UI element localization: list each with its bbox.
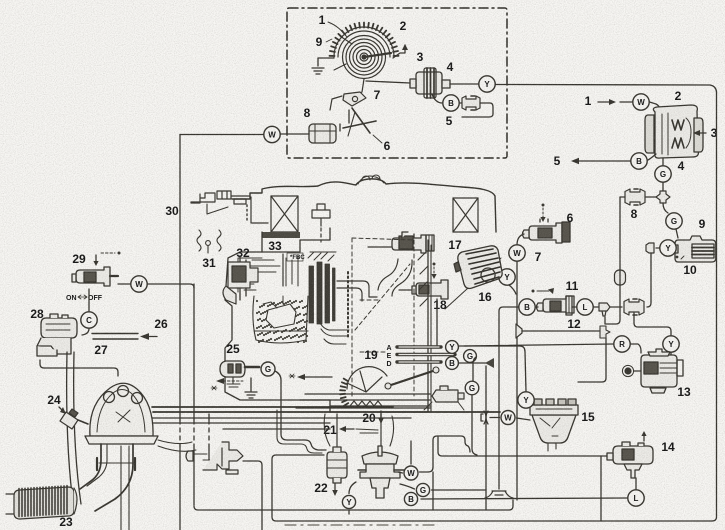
- idle compensator under air cleaner: [186, 442, 243, 474]
- linkage item 7 (inset): [330, 79, 366, 110]
- wire Y13 to item 13: [670, 353, 672, 356]
- vertical hose x209 dashed: [208, 420, 210, 446]
- vacuum valve item 25: [220, 361, 259, 387]
- wire linkage to item 4 (inset): [366, 81, 410, 83]
- riser to EGR: [380, 414, 382, 447]
- wire G port to choke opener G: [473, 357, 476, 381]
- engine top outline: [232, 179, 496, 232]
- intake flange bar: [262, 232, 300, 238]
- air cleaner dome: [85, 383, 158, 444]
- hose marker C (item 28): [81, 312, 97, 328]
- venturi top hatch: [308, 252, 336, 261]
- riser to item 22: [336, 414, 338, 446]
- vacuum valve item 10 (top right): [673, 236, 716, 262]
- vertical hose x194 lower: [193, 446, 195, 505]
- distributor item 15: [530, 399, 578, 451]
- wire W to main corner: [180, 134, 263, 136]
- throttle rod (bone): [388, 370, 436, 386]
- wire item11 right to L: [572, 306, 576, 308]
- wire cross12 bottom to Y13: [634, 313, 671, 335]
- wire item28 down to air cleaner inlet: [40, 360, 118, 376]
- wire tee to cross 12: [610, 306, 622, 308]
- air pump pipe down to intake: [67, 352, 81, 510]
- wire item29 to W: [118, 283, 130, 285]
- wire R line left: [464, 344, 614, 346]
- tee connector right of L: [594, 306, 599, 308]
- wire item17 left stub: [368, 246, 391, 248]
- wire port A to R line corner: [459, 345, 520, 347]
- valve cover bump: [358, 175, 384, 184]
- hose marker G (choke opener): [465, 381, 479, 395]
- carb internal passages: [246, 256, 298, 286]
- spacer nested curves: [318, 318, 349, 344]
- manifold hose band 3: [152, 417, 411, 419]
- fold artifact dash-dot: [285, 524, 438, 526]
- switch lever item 30: [207, 204, 228, 214]
- hose marker Y (item 15): [518, 392, 534, 408]
- air duct to carb: [158, 440, 196, 451]
- canister item 8 (inset): [309, 110, 349, 143]
- throttle rod 21: [356, 429, 378, 433]
- throttle lever gear item 19: [340, 367, 387, 406]
- wire Y22 to EGR stem: [349, 482, 356, 494]
- spring item 20: [350, 401, 382, 406]
- dashed mark left of item 11: [532, 290, 535, 293]
- dashed arrow left of 25: [223, 380, 243, 382]
- wire item18 down to R line: [436, 299, 438, 345]
- wire Y to right edge long hose: [496, 85, 717, 93]
- arrow item 20: [380, 411, 382, 419]
- hose marker G (item 25): [261, 362, 275, 376]
- wire W15 into distributor: [517, 418, 531, 420]
- duct pipes down: [121, 446, 129, 530]
- hose marker W (item 15): [501, 411, 515, 425]
- wire W22 zigzag right: [420, 436, 471, 472]
- wire gear-left to ground (inset): [318, 58, 334, 66]
- rods item 6 (inset): [343, 108, 376, 136]
- wire y456 to item 14: [438, 437, 607, 456]
- wire item4 to B (inset): [432, 94, 442, 103]
- solenoid valve item 11/12: [537, 296, 575, 315]
- hose marker G (top right item 4): [655, 166, 671, 182]
- mark near item 10: [676, 256, 679, 259]
- arrow 3 (top right): [698, 132, 706, 134]
- hose marker G (port E): [464, 350, 477, 363]
- ground below item 25: [250, 378, 252, 391]
- arrow into carb bottom: [305, 376, 332, 378]
- second bottom hose: [194, 500, 513, 510]
- tee stem down from y331 tee: [578, 338, 606, 382]
- inset dash-dot border: [287, 8, 507, 158]
- distributor advance item 16: [454, 246, 502, 289]
- wire L14 left to EGR B: [421, 498, 628, 499]
- arrow above item 14: [643, 434, 645, 441]
- distributor gear item 1 (inset): [330, 23, 399, 79]
- valve item 4 (inset): [410, 68, 450, 98]
- hose marker Y (item 16): [499, 269, 515, 285]
- drain symbol bottom of B11 line: [485, 491, 513, 498]
- hose marker B (EGR lower): [404, 492, 417, 505]
- EGR vacuum modulator item 14: [607, 442, 653, 478]
- leader from item 16: [445, 258, 501, 309]
- wire W7 down to bottom: [516, 262, 518, 501]
- main frame corner wire: [179, 135, 181, 421]
- wire W29 right to drop: [148, 284, 195, 288]
- choke housing details: [238, 258, 262, 292]
- hose marker B (inset item 5): [443, 95, 459, 111]
- wire arrow to W (top right): [620, 101, 632, 103]
- capsule fitting on x620 line: [615, 270, 626, 285]
- manifold hose band 2: [153, 411, 500, 413]
- manifold hose band 1: [152, 406, 393, 408]
- hose marker L (item 12): [577, 299, 593, 315]
- corrugated hose item 23: [6, 486, 77, 519]
- port dot item 13: [634, 370, 641, 372]
- wire W22 top: [410, 441, 412, 464]
- arrow 1 (top right): [598, 101, 611, 103]
- wire item8 to W (inset): [281, 133, 309, 135]
- wire item14 bottom to L: [635, 478, 637, 489]
- vertical hose x194 dashed: [193, 420, 195, 446]
- vacuum valve item 18: [412, 280, 448, 299]
- sensor item 24: [60, 409, 88, 429]
- hose marker W (inset item 8): [264, 126, 280, 142]
- flange connector on x486 line: [481, 411, 488, 424]
- dashed mark above item 18: [433, 263, 436, 266]
- wire item11 left nozzle to B: [536, 306, 539, 308]
- wire W15 left stub to flange: [490, 417, 500, 419]
- cross connector (near 12): [624, 299, 644, 315]
- hose marker Y (item 13): [663, 336, 679, 352]
- dashed mark above item 6: [542, 204, 545, 207]
- hose marker G (EGR): [416, 483, 429, 496]
- frame wire lower: [179, 446, 181, 530]
- wedge fitting on x517 line: [516, 324, 522, 338]
- arrow item 22: [334, 484, 336, 491]
- vertical hose x194: [193, 284, 195, 420]
- fitting on engine top: [312, 204, 330, 242]
- relay item 30: [191, 191, 268, 223]
- wire W22 drop to bottom: [432, 472, 434, 510]
- wire compensator to x262 drop: [243, 461, 262, 530]
- ground (inset): [312, 68, 324, 74]
- thermo wax item 31 squiggles: [197, 230, 221, 253]
- hose marker L (item 14): [628, 490, 644, 506]
- BVSV item 13: [641, 349, 683, 393]
- wire B port to triangle connector: [459, 362, 487, 364]
- hose marker W (item 7): [509, 245, 525, 261]
- carb port nipples: [397, 347, 455, 362]
- carb spacer plates: [296, 394, 430, 408]
- vertical hose x486: [485, 392, 487, 510]
- wire R to item 13: [631, 344, 642, 353]
- venturi stack dark bars: [309, 262, 335, 324]
- wire item5 loop: [462, 103, 493, 117]
- wire G25 down to item 22: [275, 371, 326, 450]
- cross connector item 5 (inset): [460, 102, 466, 104]
- hose marker W (EGR): [404, 466, 418, 480]
- wire Y22 bottom to line: [348, 511, 350, 515]
- wire tee to cross 8: [645, 196, 656, 198]
- hose marker B (item 11): [519, 299, 535, 315]
- wire G9 to valve 10: [676, 229, 678, 238]
- solenoid valve item 29: [72, 267, 118, 286]
- float: [266, 304, 296, 328]
- frame wire dashed segment: [179, 420, 181, 446]
- wire valve2 bottom to G: [662, 158, 664, 165]
- manifold hose band 5: [223, 428, 330, 430]
- solenoid valve item 6: [523, 219, 571, 243]
- carb choke mechanism item 32: [223, 262, 258, 304]
- wire air cleaner to band: [112, 407, 152, 413]
- wire item14 drop to bottom: [600, 456, 602, 521]
- wire Y10 tee down to cross 12: [647, 253, 651, 307]
- arrow line to item 2 (inset): [393, 45, 405, 58]
- heat riser crosshatch left: [271, 196, 298, 232]
- hose marker B (top right item 5): [631, 153, 647, 169]
- scan noise overlay: [0, 0, 1, 1]
- wire valve2 to B: [648, 154, 656, 160]
- carb pump hook ducts: [337, 259, 412, 301]
- wire wedge to tee: [522, 330, 599, 332]
- wire W to air valve 2: [650, 102, 661, 110]
- solenoid valve item 17: [392, 232, 434, 253]
- wire item18 left stub: [399, 289, 411, 291]
- EGR valve assembly: [358, 446, 404, 498]
- wire G22 line right: [432, 489, 487, 491]
- wire item29 down to C: [88, 289, 90, 311]
- air control valve item 2 (top right): [645, 105, 703, 158]
- tee connector (top right): [656, 191, 670, 203]
- hose marker Y (port A): [446, 341, 459, 354]
- intake duct item 23: [80, 444, 135, 511]
- cross connector item 8 (top right): [625, 189, 645, 205]
- parallel hose to item 22: [277, 410, 322, 453]
- arrow 5 (top right): [577, 160, 631, 162]
- fuel passage dotted: [347, 272, 349, 338]
- right tall hose: [712, 92, 717, 521]
- hose marker B (port D): [446, 357, 459, 370]
- tee fitting at end: [600, 326, 610, 338]
- hose marker G (top right item 9): [666, 213, 682, 229]
- wire EGR to G: [400, 484, 415, 489]
- wire tee down to G9: [663, 203, 668, 213]
- air pump item 28: [37, 314, 77, 356]
- hose marker Y (inset item 4): [479, 76, 495, 92]
- connector curves under carb: [324, 414, 393, 446]
- heat riser crosshatch right: [453, 198, 478, 232]
- wire item4 to Y (inset): [450, 83, 478, 85]
- wire Y16 stub into vertical: [509, 285, 516, 294]
- arrow item 21: [344, 428, 354, 430]
- dashed mark above item 29: [95, 255, 97, 261]
- tee connector left of Y10: [656, 247, 660, 249]
- wire B11 left and down to drain: [499, 307, 519, 489]
- carb right edge second line: [418, 245, 431, 411]
- bottom long hose: [272, 455, 712, 521]
- wire cross8 left down long: [605, 197, 625, 324]
- carburetor outer body: [225, 228, 428, 412]
- hose marker W (item 29): [131, 276, 147, 292]
- wire Y15 up to junction on R line: [520, 346, 526, 392]
- wire G down to tee: [662, 183, 664, 193]
- choke opener valve: [424, 386, 464, 410]
- wire EGR to W: [398, 472, 403, 473]
- hose marker Y (top right item 10): [660, 240, 676, 256]
- hose marker W (top right item 1): [633, 94, 649, 110]
- EGR passage dashed verticals: [352, 238, 414, 396]
- hose marker R: [614, 336, 630, 352]
- fuel filter item 22: [327, 447, 347, 483]
- wire item6 to W7: [517, 234, 524, 245]
- arrows item 26: [92, 334, 138, 340]
- hose marker Y (EGR left): [342, 495, 355, 508]
- vertical hose x209: [208, 414, 210, 460]
- manifold hose band 4: [150, 422, 330, 424]
- float bowl item 32 fuel stipple: [256, 300, 308, 343]
- wire G2 down to y456: [472, 395, 477, 455]
- wire C to item 28: [82, 329, 89, 336]
- float bowl outline: [253, 296, 308, 343]
